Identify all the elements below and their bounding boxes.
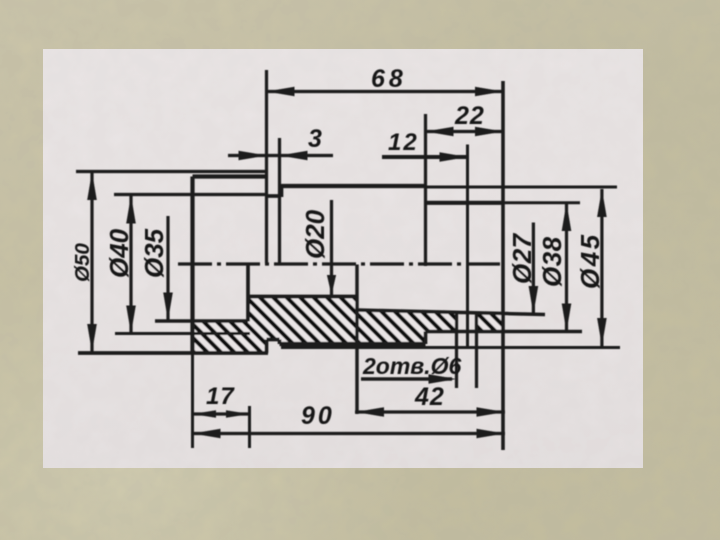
extension: diam45 top toward right dim <box>426 186 618 189</box>
extension: left of dims 22/12 at step <box>424 114 427 266</box>
hatched section: central block around diam20 bore <box>248 297 357 354</box>
dimension line 22 <box>426 130 504 133</box>
svg-text:Ø35: Ø35 <box>139 228 169 278</box>
svg-text:Ø20: Ø20 <box>300 209 330 259</box>
part outline: notch left wall bottom <box>265 340 269 354</box>
part outline: diam45 top edge <box>281 184 426 188</box>
svg-text:2отв.Ø6: 2отв.Ø6 <box>362 353 461 379</box>
dimension line 90 <box>193 432 506 435</box>
svg-text:90: 90 <box>301 402 335 430</box>
svg-text:22: 22 <box>454 102 485 130</box>
hatched section: flange around diam35 bore <box>193 322 249 354</box>
part outline: step diam45/diam38 bottom <box>424 332 428 345</box>
hole diam6 right edge with extension down <box>475 314 478 389</box>
dimension line 3 <box>228 154 333 157</box>
hole center extension line <box>466 145 469 347</box>
part outline: diam50 top edge <box>193 174 267 178</box>
part outline: diam38 bottom edge with right extension <box>426 330 583 334</box>
svg-text:Ø40: Ø40 <box>104 228 134 278</box>
dimension line diam45 <box>600 189 603 346</box>
centerline (axis) <box>178 262 502 265</box>
hole diam6 left edge with extension down <box>455 313 458 388</box>
part outline: groove right wall top <box>280 186 284 197</box>
extension: left of dims 68 and 3 <box>265 70 268 264</box>
bore step diam20/diam27 and extension down to dim 42 <box>355 265 358 415</box>
extension: diam38 top toward right dim <box>503 201 580 204</box>
dimension line 12 <box>382 155 468 159</box>
dimension line diam38 <box>565 203 568 332</box>
extension: diam45 bottom toward right dim <box>281 346 620 349</box>
svg-text:Ø45: Ø45 <box>575 232 605 289</box>
svg-text:Ø27: Ø27 <box>507 232 537 284</box>
extension: diam40 bottom <box>115 332 250 335</box>
hatched section: right strip around diam27 bore, left of hole <box>357 310 457 344</box>
part outline: diam38 top edge <box>426 201 504 205</box>
svg-text:68: 68 <box>371 65 407 93</box>
dimension line diam27 <box>532 223 535 315</box>
svg-text:Ø38: Ø38 <box>537 236 567 287</box>
svg-text:12: 12 <box>388 129 419 156</box>
part outline: right face and its extensions up/down <box>501 81 505 450</box>
dimension line diam20 <box>330 200 333 295</box>
dimension line 17 <box>193 412 250 415</box>
bore step: diam35 to diam20 <box>246 264 250 322</box>
dimension line diam50 <box>90 172 93 352</box>
leader shelf for hole note <box>361 377 452 380</box>
part outline: left face <box>190 177 194 354</box>
part outline: notch floor bottom <box>267 338 280 342</box>
part outline: diam50 bottom edge with left extension <box>78 351 268 355</box>
part outline: diam45 bottom edge <box>280 342 426 346</box>
bore wall: diam20 <box>248 295 357 299</box>
svg-text:42: 42 <box>414 383 445 411</box>
dimension line 68 <box>267 90 504 93</box>
hatched section: right strip, right of hole <box>477 314 504 332</box>
svg-text:17: 17 <box>206 383 235 410</box>
extension: diam50 top <box>76 170 266 173</box>
part outline: notch right wall bottom <box>278 340 282 345</box>
dimension line 42 <box>355 410 505 413</box>
extension: right of dim 3 <box>278 138 281 265</box>
extension below left face for dims 17/90 <box>191 353 194 448</box>
bore wall: diam35 with left extension <box>155 319 248 323</box>
extension: right of dim 17 <box>248 406 251 448</box>
svg-text:3: 3 <box>308 125 322 153</box>
extension: diam40 top <box>114 193 266 196</box>
part outline: groove floor (diam40) top <box>266 194 282 198</box>
dimension line diam35 <box>166 216 169 321</box>
dimension line diam40 <box>129 196 132 334</box>
svg-text:Ø50: Ø50 <box>71 243 94 282</box>
bore wall: diam27 with right extension <box>357 310 545 315</box>
